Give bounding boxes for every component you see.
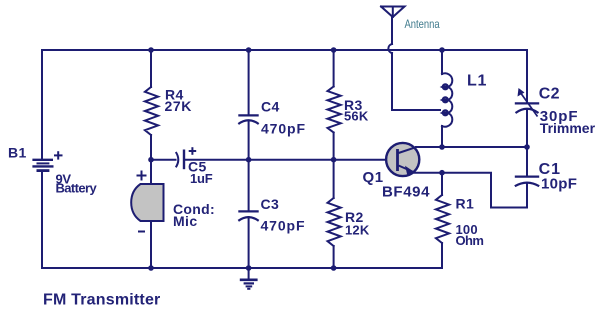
svg-text:10pF: 10pF <box>541 175 577 192</box>
svg-text:Antenna: Antenna <box>405 18 440 31</box>
svg-text:C4: C4 <box>261 99 280 115</box>
svg-text:Battery: Battery <box>56 181 98 196</box>
svg-text:470pF: 470pF <box>261 217 306 233</box>
svg-text:470pF: 470pF <box>261 121 306 137</box>
svg-text:Ohm: Ohm <box>456 233 484 248</box>
svg-text:B1: B1 <box>8 145 27 161</box>
svg-text:Q1: Q1 <box>363 169 384 186</box>
svg-text:Mic: Mic <box>173 213 198 229</box>
svg-text:BF494: BF494 <box>382 184 430 201</box>
svg-text:FM Transmitter: FM Transmitter <box>43 292 161 309</box>
svg-text:1uF: 1uF <box>190 171 213 186</box>
svg-text:L1: L1 <box>467 73 487 90</box>
svg-text:12K: 12K <box>345 223 370 238</box>
svg-text:56K: 56K <box>344 109 369 124</box>
svg-text:C2: C2 <box>539 86 560 103</box>
svg-text:27K: 27K <box>165 98 192 114</box>
svg-text:Trimmer: Trimmer <box>540 120 596 136</box>
svg-text:C3: C3 <box>261 196 280 212</box>
svg-text:R1: R1 <box>456 196 475 212</box>
